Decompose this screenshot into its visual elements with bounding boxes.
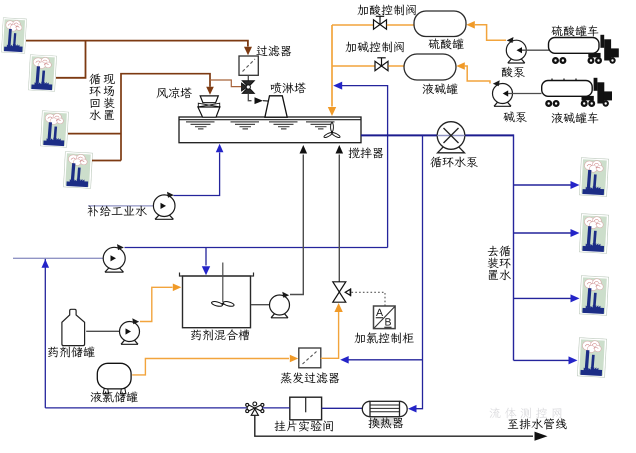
watermark text [490,408,501,419]
agitator shaft [222,263,224,303]
label 加氯控制柜 [354,333,365,344]
filter 过滤器 [239,56,258,75]
label 酸泵 [502,67,513,78]
arrow at chlorination junction [340,356,349,364]
wire branch to plant R3 [514,297,571,299]
wire coupon room to heat exchanger [322,407,363,409]
wire branch down to mixing tank [205,248,207,266]
label 液氯储罐 [91,392,102,403]
wire chemical loop riser [342,86,388,248]
evaporation filter 蒸发过滤器 [299,348,321,368]
wire chlorine tank out [132,359,289,375]
wire alkali dosing line [332,65,375,67]
factory plant L3 (现场装置) [40,111,68,148]
arrow dosing into basin bottom [300,145,308,154]
label 去装置 (vertical) [488,246,499,257]
label 碱泵 [503,111,514,122]
arrow down into filter [244,47,252,56]
wire return water from plant L1 to filter [26,41,248,47]
arrow into alkali tank [456,62,465,70]
dosing pump [120,318,140,344]
mixing tank 药剂混合槽 [180,273,254,328]
arrow chlorine into basin [336,145,344,154]
label 蒸发过滤器 [281,372,292,383]
pipe into spray tower interior [263,100,276,103]
agitator impeller [211,301,234,308]
wire branch to makeup valve [210,80,241,87]
watermark blob [370,412,400,427]
wire chlorine valve to basin [338,155,340,282]
label 过滤器 [257,46,268,57]
arrow down into cooling tower [206,87,214,95]
chlorine control valve [333,282,351,302]
label 挂片实验间 [274,421,285,432]
label 循环水泵 [430,157,441,168]
arrow into plant R4 [569,356,578,364]
arrow into transfer pump [273,302,279,308]
label 搅拌器 [348,148,359,159]
suction into loop pump [13,257,110,259]
makeup pump [153,192,175,220]
label 硫酸罐车 [552,26,563,37]
arrow in dosing pump [126,328,132,334]
pipe valve to spray tower [248,93,251,100]
arrow loop into suction [42,259,50,268]
transfer pump [270,292,290,318]
label 硫酸罐 [429,39,440,50]
chlorine tank 液氯储罐 [97,363,131,393]
wire basin outlet main [361,134,514,136]
wire branch to chlorination point [349,359,423,361]
arrow in makeup pump [161,203,167,209]
suction from acid truck [522,49,549,51]
alkali tank 液碱罐 [404,54,456,80]
arrow into plant R2 [571,229,580,237]
drain line from valve [255,415,533,436]
wire loop return riser [44,259,46,408]
arrow dosing into basin [328,107,336,116]
acid pump 酸泵 [506,37,526,63]
arrow in loop pump [111,255,117,261]
factory plant L2 (现场装置) [28,55,56,92]
factory plant R1 [579,158,608,197]
alkali control valve 加碱控制阀 [375,58,388,71]
label 至排水管线 [508,419,519,429]
three-way valve [246,402,264,415]
coupon test room 挂片实验间 [290,397,322,420]
wire supply riser down [513,134,515,360]
arrow into plant R1 [571,181,580,189]
label 补给工业水 [88,205,99,216]
acid tank 硫酸罐 [414,11,466,37]
suction makeup water [88,205,160,207]
label 药剂混合槽 [191,330,201,341]
label 加酸控制阀 [357,5,368,16]
chemical tank 药剂储罐 [62,309,85,345]
wire branch to plant R1 [514,184,571,186]
suction from alkali truck [508,93,542,95]
arrow in acid pump [517,47,523,53]
label 液碱罐 [423,84,434,95]
wire branch to plant R4 [514,359,569,361]
signal line valve to control box [352,292,386,305]
cooling tower 风凉塔 [198,96,220,117]
arrow into acid tank [466,21,475,29]
label 换热器 [368,417,379,428]
label 循环水 (vertical) [499,246,510,257]
valve V1 under filter [242,81,255,94]
loop pump [103,244,125,272]
spray nozzle glyph [273,99,280,106]
factory plant R4 [577,338,606,378]
label 现场装置 (vertical) [104,74,115,84]
arrow to drain [535,432,548,441]
wire valve to acid tank [387,24,414,26]
wire branch to plant R2 [514,232,571,234]
label 循环回水 (vertical) [89,74,100,85]
wire side stream down [417,135,423,408]
chlorination control box A/B 加氯控制柜 [374,306,396,329]
factory plant R2 [579,214,608,254]
label 液碱罐车 [552,113,563,124]
circulating pump 循环水泵 [437,122,465,153]
acid control valve 加酸控制阀 [374,16,387,29]
pipe tank to dosing pump [86,330,120,332]
wire valve to alkali tank [388,65,404,67]
pipe filter to valve [247,75,249,81]
alkali tanker truck 液碱罐车 [542,78,612,107]
arrow into evaporator filter [290,355,299,363]
wire transfer pump to basin [290,155,303,295]
alkali pump 碱泵 [493,80,513,106]
wire acid dosing line [332,24,373,26]
wire dosing pump to mixing tank [140,287,173,321]
water surface marks [186,122,335,129]
arrow in alkali pump [503,90,509,96]
wire evaporator to chlorine valve [321,312,339,359]
wire acid pump to tank [475,25,506,40]
pipe mixing tank to transfer pump [251,304,270,306]
arrow makeup into basin [216,144,224,153]
arrow into mixing tank wall [173,284,182,292]
label 喷淋塔 [271,82,282,93]
acid tanker truck 硫酸罐车 [549,35,619,64]
basin 集水池 [179,117,361,143]
wire loop bottom [45,407,247,409]
agitator propeller 搅拌器 [323,123,340,139]
arrow into heat exchanger [408,405,417,413]
wire makeup to basin [174,153,220,196]
arrow into dosing junction [333,82,342,90]
wire return header for plants L3/L4 to cooling tower [68,74,210,161]
factory plant R3 [579,276,608,316]
factory plant L4 (现场装置) [63,152,92,189]
wire loop discharge [125,247,388,249]
factory plant L1 (现场装置) [1,18,26,54]
spray tower 喷淋塔 [265,96,287,117]
arrow into plant R3 [571,294,580,302]
wire branch junction down to plant L2 [56,41,86,78]
wire alkali pump to tank [465,66,490,84]
label 加碱控制阀 [345,42,356,53]
arrow into spray tower [255,97,264,104]
arrow into mixing tank [202,266,210,275]
tank top hatches [552,79,576,81]
label 风凉塔 [156,88,167,98]
heat exchanger 换热器 [362,401,407,416]
arrow into chlorine valve [334,303,342,312]
label 药剂储罐 [48,347,58,358]
wire dosing down to basin [331,25,333,107]
wire valve to coupon room [262,407,289,409]
